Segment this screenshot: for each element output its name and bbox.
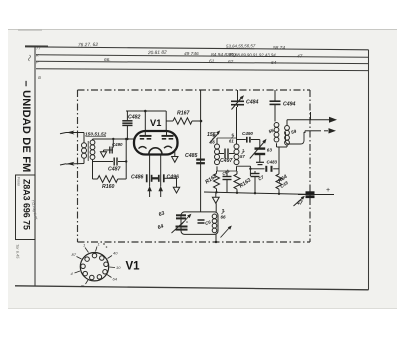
svg-text:a: a [38, 75, 41, 81]
svg-text:58 74: 58 74 [273, 45, 285, 51]
svg-text:C486: C486 [131, 175, 144, 181]
svg-text:66.: 66. [104, 57, 111, 63]
svg-text:P: P [36, 60, 39, 65]
svg-text:C487: C487 [108, 167, 122, 173]
svg-text:53,64,55,56,57: 53,64,55,56,57 [226, 43, 256, 49]
svg-text:Tor 6.45: Tor 6.45 [15, 244, 21, 259]
svg-text:Z8A3 696 75: Z8A3 696 75 [22, 179, 32, 230]
svg-text:20.81 82: 20.81 82 [147, 50, 167, 57]
svg-text:57: 57 [240, 154, 245, 159]
svg-text:C497: C497 [220, 158, 234, 164]
svg-text:1: 1 [98, 242, 100, 247]
svg-text:47: 47 [296, 201, 303, 207]
svg-text:Freno: Freno [17, 177, 21, 186]
svg-text:77: 77 [36, 46, 41, 51]
svg-text:C484: C484 [246, 100, 259, 106]
svg-text:V1: V1 [150, 118, 161, 128]
svg-text:V1: V1 [126, 261, 141, 273]
svg-text:62: 62 [228, 59, 234, 65]
svg-text:C483: C483 [267, 160, 278, 165]
svg-text:C494: C494 [283, 102, 296, 108]
svg-text:C482: C482 [128, 115, 141, 121]
svg-text:C485: C485 [185, 153, 198, 159]
svg-text:+: + [326, 187, 330, 194]
svg-text:1: 1 [83, 243, 85, 248]
svg-text:10: 10 [116, 265, 121, 270]
svg-text:C490: C490 [112, 142, 123, 147]
svg-text:1: 1 [242, 149, 244, 153]
svg-text:64: 64 [271, 60, 277, 66]
svg-text:40: 40 [113, 251, 118, 256]
svg-text:49 746: 49 746 [184, 51, 199, 57]
svg-text:66: 66 [221, 215, 227, 220]
svg-text:61: 61 [209, 58, 215, 64]
svg-text:R167: R167 [177, 111, 191, 117]
svg-text:64: 64 [113, 277, 118, 282]
svg-text:61: 61 [229, 139, 234, 144]
svg-text:K: K [36, 53, 39, 58]
svg-text:C490: C490 [242, 131, 253, 136]
svg-text:– UNIDAD DE FM: – UNIDAD DE FM [20, 81, 32, 173]
svg-text:R160: R160 [102, 184, 115, 190]
svg-text:63: 63 [267, 148, 273, 153]
svg-text:C496: C496 [167, 175, 180, 181]
svg-text:56: 56 [210, 140, 215, 145]
svg-text:87: 87 [72, 252, 77, 257]
svg-text:87,88,89,90,91,92,43,94: 87,88,89,90,91,92,43,94 [229, 53, 276, 58]
svg-text:47: 47 [297, 54, 303, 60]
svg-text:76 27. 62: 76 27. 62 [78, 42, 98, 48]
